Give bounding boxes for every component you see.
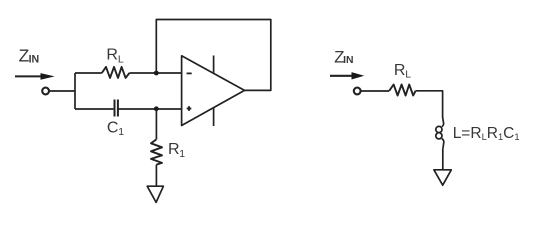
arrow (right input) (330, 72, 364, 79)
svg-text:R: R (106, 47, 118, 64)
wire top branch left (75, 72, 102, 74)
wire R1 to ground (155, 165, 157, 187)
label ZIN (left) (19, 46, 40, 66)
op-amp plus input marker (187, 106, 192, 111)
resistor RL (left) (102, 67, 130, 78)
op-amp U1 triangle (182, 56, 245, 126)
op-amp positive supply pin (213, 56, 215, 74)
svg-text:IN: IN (29, 54, 40, 66)
wire node to R1 (155, 109, 157, 140)
op-amp negative supply pin (213, 108, 215, 126)
svg-text:IN: IN (343, 55, 353, 66)
wire inductor to ground (442, 148, 444, 170)
label RL (right) (394, 62, 411, 80)
wire bottom branch left (75, 108, 113, 110)
label L formula (453, 125, 520, 142)
wire top branch right (129, 72, 181, 74)
terminal (right input) (354, 88, 361, 95)
node noninverting input (154, 106, 159, 111)
svg-text:C: C (107, 120, 119, 137)
label RL (left) (106, 47, 124, 66)
terminal (left input) (42, 88, 49, 95)
svg-text:L=RLR1C1: L=RLR1C1 (453, 125, 520, 142)
wire bottom branch right (118, 108, 182, 110)
svg-text:1: 1 (118, 126, 124, 138)
wire input to split (49, 90, 75, 92)
label R1 (168, 141, 185, 160)
svg-text:1: 1 (179, 148, 185, 160)
label ZIN (right) (334, 47, 353, 66)
inductor L (436, 117, 444, 148)
svg-text:L: L (405, 69, 411, 81)
feedback wire (156, 20, 270, 91)
node inverting input (154, 71, 159, 76)
ground (right) (434, 170, 451, 185)
ground (left) (147, 186, 163, 202)
svg-text:R: R (168, 141, 180, 158)
wire RL to corner down (416, 91, 443, 118)
wire terminal to RL (361, 90, 389, 92)
svg-text:L: L (118, 53, 124, 65)
wire split vertical (74, 73, 76, 109)
resistor RL (right) (389, 85, 415, 96)
resistor R1 (151, 139, 162, 164)
op-amp minus input marker (187, 72, 192, 74)
arrow (left input) (15, 73, 55, 80)
capacitor C1 (115, 100, 118, 117)
svg-text:R: R (394, 62, 406, 79)
label C1 (107, 120, 124, 139)
